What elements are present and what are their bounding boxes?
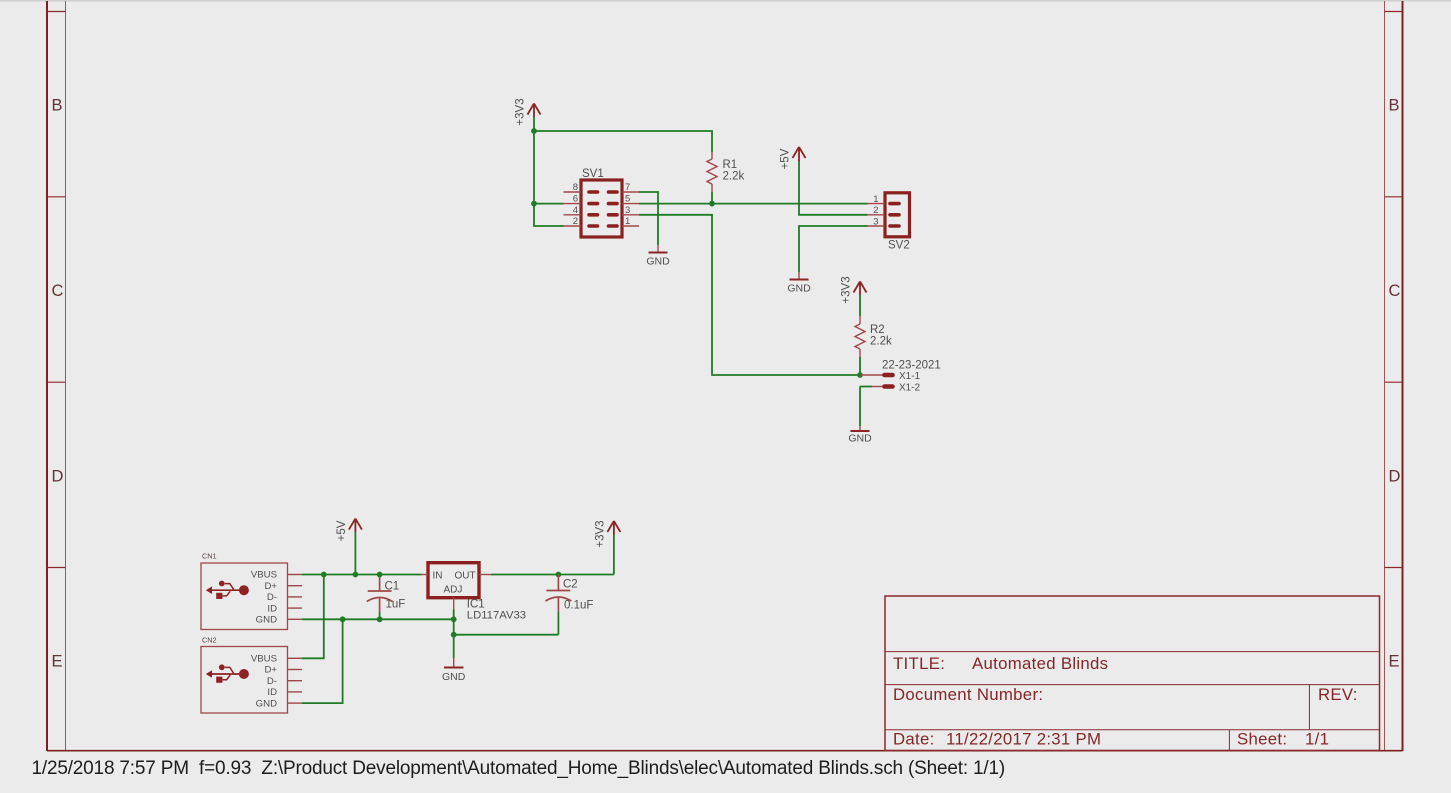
wire R2 bottom <box>859 357 861 375</box>
svg-text:3: 3 <box>873 216 878 227</box>
node R1 bottom junction <box>709 201 715 207</box>
connector CN1 pin stubs <box>288 575 303 620</box>
svg-text:GND: GND <box>256 615 277 626</box>
connector CN2 pin names <box>251 654 278 710</box>
ground below SV1 pin7 <box>646 245 670 268</box>
connector CN1 <box>201 563 288 630</box>
svg-text:R1: R1 <box>723 159 738 171</box>
wire C2 bottom row <box>454 634 559 636</box>
node C2 top junction <box>556 572 562 578</box>
supply +5V (top) <box>793 147 806 161</box>
connector SV1 inner pin bars <box>589 192 617 226</box>
IC U1 regulator box <box>428 563 479 598</box>
title block row divider 3 <box>885 729 1380 731</box>
title block Sheet divider <box>1228 730 1230 751</box>
wire +3V3 riser (bottom) <box>613 534 615 575</box>
frame right inner line <box>1384 1 1386 751</box>
node CN2 VBUS junction <box>321 572 327 578</box>
wire CN2 GND riser <box>302 619 343 703</box>
svg-text:1/25/2018 7:57 PM f=0.93 Z:\: 1/25/2018 7:57 PM f=0.93 Z:\Product Deve… <box>32 758 1005 779</box>
frame row divider left y=11.5 <box>47 11 66 13</box>
wire +5V stem (bottom) <box>354 532 356 575</box>
svg-text:E: E <box>1389 652 1400 670</box>
svg-text:X1-1: X1-1 <box>899 371 921 382</box>
svg-text:4: 4 <box>573 205 578 216</box>
svg-text:1uF: 1uF <box>386 599 406 611</box>
connector SV2 inner pin bars <box>890 204 899 226</box>
frame right thick border <box>1402 1 1404 751</box>
supply +3V3 (top) <box>528 104 541 118</box>
wire ADJ stem <box>453 610 455 620</box>
connector SV2 pin numbers <box>873 194 878 228</box>
svg-text:B: B <box>52 96 63 114</box>
svg-text:7: 7 <box>625 182 630 193</box>
wire pin3 to X1 junction <box>639 215 860 375</box>
frame row divider left y=197 <box>47 196 66 198</box>
svg-text:B: B <box>1389 96 1400 114</box>
svg-text:C2: C2 <box>563 579 578 591</box>
connector SV2 pin stubs <box>868 204 885 226</box>
wire +3V3 rail to R1 <box>534 131 712 152</box>
wire CN1 VBUS to IC1 IN <box>302 574 422 576</box>
wire pin6 branch <box>534 203 564 205</box>
svg-text:2.2k: 2.2k <box>723 171 745 183</box>
svg-text:X1-2: X1-2 <box>899 383 921 394</box>
IC1 IN pin stub <box>422 574 429 576</box>
svg-text:D-: D- <box>267 676 277 687</box>
capacitor C1 <box>367 575 393 613</box>
frame row divider right y=11.5 <box>1385 11 1403 13</box>
frame row divider right y=197 <box>1385 196 1403 198</box>
svg-text:6: 6 <box>573 194 578 205</box>
node C1 top junction <box>377 572 383 578</box>
svg-text:GND: GND <box>442 671 466 683</box>
wire GND drop <box>453 635 455 658</box>
svg-text:SV2: SV2 <box>888 240 910 252</box>
connector SV1 pin numbers right <box>625 182 630 227</box>
supply +5V (bottom) <box>349 519 362 532</box>
svg-text:2: 2 <box>573 216 578 227</box>
svg-text:LD117AV33: LD117AV33 <box>467 610 526 622</box>
title block REV divider <box>1308 685 1310 730</box>
wire C2 bottom stem <box>557 612 559 635</box>
wire +3V3 down to pin6/pin2 <box>534 131 564 226</box>
connector CN2 <box>201 647 288 714</box>
svg-text:1: 1 <box>873 194 878 205</box>
svg-text:1: 1 <box>625 216 630 227</box>
title block outer frame <box>885 596 1380 751</box>
wire IC1 OUT to +3V3 <box>491 574 614 576</box>
node +5V junction <box>353 572 359 578</box>
pin X1-2 <box>860 383 921 394</box>
svg-text:SV1: SV1 <box>582 168 604 180</box>
node GND row junction <box>451 632 457 638</box>
svg-text:C: C <box>52 282 64 300</box>
resistor R2 <box>855 316 865 357</box>
wire +5V to SV2 pin2 <box>799 161 868 215</box>
resistor R1 <box>707 152 717 192</box>
svg-text:GND: GND <box>848 433 872 445</box>
IC1 ADJ pin stub <box>453 598 455 610</box>
svg-text:3: 3 <box>625 205 630 216</box>
svg-text:Automated Blinds: Automated Blinds <box>972 654 1108 673</box>
svg-text:C: C <box>1389 282 1401 300</box>
svg-text:22-23-2021: 22-23-2021 <box>882 360 941 372</box>
wire R1 bottom <box>711 192 713 204</box>
svg-text:REV:: REV: <box>1318 685 1358 704</box>
frame row divider right y=568 <box>1385 567 1403 569</box>
svg-text:Sheet:: Sheet: <box>1237 730 1287 749</box>
frame left inner line <box>65 1 67 751</box>
wire pin5 to R1 junction <box>639 203 712 205</box>
wire C1 bottom stem <box>379 612 381 619</box>
svg-text:+3V3: +3V3 <box>841 276 853 303</box>
node +3V3/SV1 junction <box>531 128 537 134</box>
title block row divider 1 <box>885 651 1380 653</box>
svg-text:CN1: CN1 <box>202 552 217 561</box>
ground below X1-2 <box>848 426 872 445</box>
connector CN2 pin stubs <box>288 658 303 703</box>
supply +3V3 (above R2) <box>854 282 867 296</box>
svg-text:D: D <box>52 467 64 485</box>
svg-text:D+: D+ <box>264 581 277 592</box>
wire CN2 VBUS riser <box>302 575 324 659</box>
frame left thick border <box>46 1 48 751</box>
node X1 junction <box>857 372 863 378</box>
ground below SV2 <box>787 272 811 295</box>
wire +3V3 to R2 <box>859 295 861 316</box>
svg-text:+5V: +5V <box>780 148 792 169</box>
svg-text:OUT: OUT <box>455 571 476 582</box>
svg-text:Date:: Date: <box>893 730 935 749</box>
node C1 bottom junction <box>377 616 383 622</box>
frame row divider left y=382 <box>47 381 66 383</box>
capacitor C2 <box>546 575 572 612</box>
svg-text:11/22/2017 2:31 PM: 11/22/2017 2:31 PM <box>946 730 1101 749</box>
svg-text:ID: ID <box>267 603 277 614</box>
svg-text:D-: D- <box>267 592 277 603</box>
supply +3V3 (bottom) <box>607 521 620 535</box>
node pin6 junction <box>531 201 537 207</box>
svg-text:VBUS: VBUS <box>251 654 277 665</box>
svg-text:+5V: +5V <box>336 520 348 541</box>
node CN2 GND junction <box>340 616 346 622</box>
svg-text:1/1: 1/1 <box>1305 730 1329 749</box>
frame row divider left y=568 <box>47 567 66 569</box>
svg-text:GND: GND <box>787 283 811 295</box>
svg-text:GND: GND <box>256 698 277 709</box>
svg-text:Document Number:: Document Number: <box>893 685 1043 704</box>
svg-text:2: 2 <box>873 205 878 216</box>
svg-text:D+: D+ <box>264 665 277 676</box>
frame row divider right y=382 <box>1385 381 1403 383</box>
wire SV2 pin3 to GND <box>799 226 868 272</box>
svg-text:E: E <box>52 652 63 670</box>
svg-text:5: 5 <box>625 194 630 205</box>
connector SV2 <box>885 193 910 237</box>
pin X1-1 <box>860 371 921 382</box>
svg-text:+3V3: +3V3 <box>594 520 606 547</box>
svg-text:2.2k: 2.2k <box>870 336 892 348</box>
wire +3V3 stem <box>533 117 535 131</box>
svg-text:8: 8 <box>573 182 578 193</box>
connector SV1 <box>581 180 622 237</box>
svg-text:R2: R2 <box>870 324 885 336</box>
connector CN1 USB icon <box>206 581 249 599</box>
ground below IC1 <box>442 658 466 683</box>
wire ADJ to C2 bottom row <box>453 619 455 634</box>
svg-text:CN2: CN2 <box>202 636 217 645</box>
svg-text:C1: C1 <box>385 581 400 593</box>
svg-text:ADJ: ADJ <box>444 585 463 596</box>
IC1 OUT pin stub <box>479 574 491 576</box>
title block row divider 2 <box>885 684 1380 686</box>
svg-text:IN: IN <box>433 571 443 582</box>
connector CN2 USB icon <box>206 664 249 682</box>
connector SV1 pin numbers left <box>573 182 578 227</box>
svg-text:TITLE:: TITLE: <box>893 654 945 673</box>
wire R1 junction to SV2 pin1 <box>712 203 868 205</box>
connector SV1 left pin stubs <box>564 192 582 226</box>
wire X1-2 to GND <box>859 387 861 427</box>
connector SV1 right pin stubs <box>622 192 639 226</box>
svg-text:+3V3: +3V3 <box>515 98 527 125</box>
svg-text:D: D <box>1389 467 1401 485</box>
svg-text:0.1uF: 0.1uF <box>564 600 593 612</box>
svg-text:GND: GND <box>646 256 670 268</box>
node ADJ junction <box>451 616 457 622</box>
svg-text:ID: ID <box>267 687 277 698</box>
connector CN1 pin names <box>251 570 278 626</box>
wire pin7 to GND <box>639 192 658 245</box>
wire CN1 GND rail <box>302 618 454 620</box>
frame bottom border <box>47 750 1403 752</box>
svg-text:VBUS: VBUS <box>251 570 277 581</box>
